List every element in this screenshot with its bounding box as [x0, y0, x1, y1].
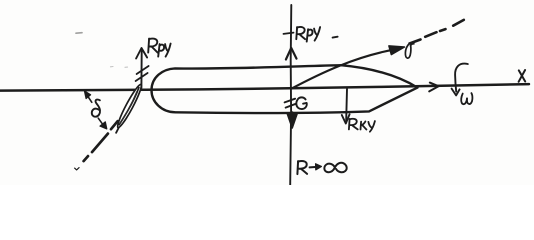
arrowhead R_py up	[286, 48, 297, 60]
label R_ky	[349, 119, 375, 132]
label G	[296, 97, 307, 109]
G ticks	[285, 99, 297, 108]
label omega	[461, 93, 472, 104]
tick on y axis	[284, 33, 294, 34]
label R -> infinity	[297, 161, 307, 174]
omega curl	[455, 64, 468, 92]
label R_py at rudder	[148, 39, 170, 57]
y axis	[290, 5, 291, 185]
x axis arrowhead	[429, 83, 438, 92]
label x	[519, 70, 526, 82]
x axis	[0, 84, 529, 91]
label v (theta-like)	[405, 44, 414, 58]
dashed continuation of v	[410, 20, 464, 44]
R_ky arrow	[345, 89, 348, 120]
faint smudge	[76, 32, 82, 35]
dashed rudder neutral line	[84, 121, 118, 161]
body hull	[151, 65, 417, 113]
rudder	[115, 83, 144, 129]
label R_py at y axis	[296, 27, 320, 42]
rudder stock arrow	[140, 51, 142, 88]
velocity vector v	[292, 49, 397, 88]
label delta	[92, 100, 100, 117]
dash after label	[333, 36, 338, 39]
down arrow below G	[291, 113, 294, 125]
rudder stock ticks	[136, 66, 149, 81]
faint dust specks	[111, 66, 128, 69]
delta angle arrows	[88, 97, 92, 103]
small check mark	[75, 168, 80, 170]
